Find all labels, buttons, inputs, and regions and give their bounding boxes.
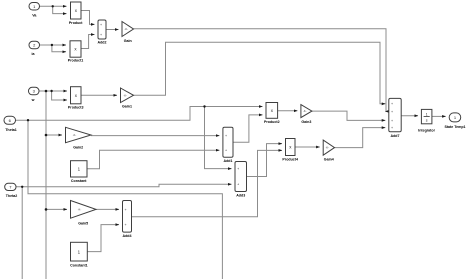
inport 6 [4, 116, 16, 124]
integrator U1 [421, 109, 432, 123]
svg-text:+: + [125, 208, 127, 212]
gain Gain4 [323, 140, 334, 155]
svg-text:1: 1 [426, 113, 428, 117]
svg-text:+: + [391, 126, 393, 130]
svg-text:+: + [237, 183, 239, 187]
wire [401, 115, 418, 117]
inport 2 [29, 41, 40, 49]
svg-text:Gain: Gain [124, 39, 132, 43]
svg-text:State Temp1: State Temp1 [444, 125, 465, 129]
wire [432, 115, 446, 117]
gain Gain3 [301, 105, 312, 118]
svg-text:+: + [225, 149, 227, 153]
svg-text:+: + [100, 33, 102, 37]
svg-text:s: s [426, 119, 428, 123]
svg-text:Add2: Add2 [98, 41, 107, 45]
svg-text:Gain1: Gain1 [122, 105, 132, 109]
wire [53, 6, 67, 13]
svg-text:-K-: -K- [73, 133, 77, 137]
svg-text:Add4: Add4 [123, 234, 132, 238]
wire [87, 225, 119, 252]
wire [81, 35, 95, 49]
wire [132, 150, 283, 216]
wire [40, 44, 67, 46]
svg-text:+: + [391, 119, 393, 123]
wire [81, 94, 117, 96]
wire [278, 110, 298, 112]
sum Add3 [235, 162, 247, 192]
svg-text:+: + [225, 134, 227, 138]
gain Gain1 [121, 88, 134, 103]
svg-text:Product: Product [69, 21, 83, 25]
product Product1 [70, 41, 81, 57]
product Product2 [266, 103, 278, 119]
gain Gain5 [71, 201, 97, 219]
svg-text:Product4: Product4 [282, 158, 298, 162]
wire [39, 90, 67, 92]
svg-text:w: w [31, 98, 35, 102]
svg-text:-K-: -K- [326, 146, 330, 150]
inport 7 [5, 183, 16, 190]
outport 1 [449, 113, 461, 122]
wire [40, 5, 67, 7]
product Product [71, 2, 82, 19]
svg-text:+: + [125, 223, 127, 227]
svg-text:-K-: -K- [78, 208, 82, 212]
sum Add7 [389, 98, 401, 131]
svg-text:Product2: Product2 [264, 120, 280, 124]
svg-text:-K-: -K- [303, 109, 307, 113]
wire [52, 45, 66, 52]
constant Constant1 [71, 242, 88, 261]
wire [312, 111, 385, 120]
wire [335, 128, 386, 148]
wire [28, 120, 222, 279]
gain Gain [122, 22, 134, 37]
constant Constant [71, 161, 88, 177]
wire [21, 187, 23, 279]
wire [45, 91, 47, 279]
wire [16, 107, 263, 121]
svg-text:Gain2: Gain2 [73, 146, 83, 150]
inport 1 [29, 3, 40, 11]
svg-text:Theta2: Theta2 [6, 194, 18, 198]
svg-text:Theta1: Theta1 [5, 128, 17, 132]
wire [52, 91, 67, 100]
wire [96, 208, 119, 210]
svg-text:+: + [237, 167, 239, 171]
wire [134, 29, 387, 112]
wire [295, 146, 320, 148]
wire [46, 134, 62, 136]
integrator fraction bar [424, 115, 430, 117]
wire [205, 107, 232, 169]
svg-text:Add7: Add7 [391, 134, 400, 138]
svg-text:Integrator: Integrator [418, 128, 435, 132]
svg-text:Gain5: Gain5 [78, 222, 88, 226]
svg-text:+: + [100, 23, 102, 27]
svg-text:-K-: -K- [124, 27, 128, 31]
wire [46, 208, 67, 210]
wire [87, 150, 219, 169]
svg-text:Gain4: Gain4 [324, 158, 334, 162]
wire [81, 11, 95, 25]
gain Gain2 [66, 127, 92, 142]
wire [16, 184, 232, 187]
wire [106, 29, 119, 31]
product Product4 [286, 139, 296, 156]
wire [233, 115, 263, 142]
sum Add2 [98, 20, 106, 39]
svg-text:Add1: Add1 [224, 159, 233, 163]
svg-text:Product1: Product1 [68, 59, 84, 63]
sum Add4 [123, 201, 132, 233]
svg-text:Constant1: Constant1 [70, 264, 88, 268]
svg-text:+: + [391, 110, 393, 114]
svg-text:Gain3: Gain3 [301, 120, 311, 124]
svg-text:Product3: Product3 [68, 105, 84, 109]
node junction dots [21, 5, 206, 211]
wire [91, 135, 219, 137]
svg-text:+: + [391, 102, 393, 106]
svg-text:Constant: Constant [71, 179, 87, 183]
sum Add1 [223, 127, 233, 157]
product Product3 [71, 87, 82, 104]
svg-text:Add3: Add3 [236, 194, 245, 198]
inport 3 [29, 87, 40, 95]
wire [247, 144, 283, 177]
wire [134, 42, 386, 104]
svg-text:-K-: -K- [123, 93, 127, 97]
